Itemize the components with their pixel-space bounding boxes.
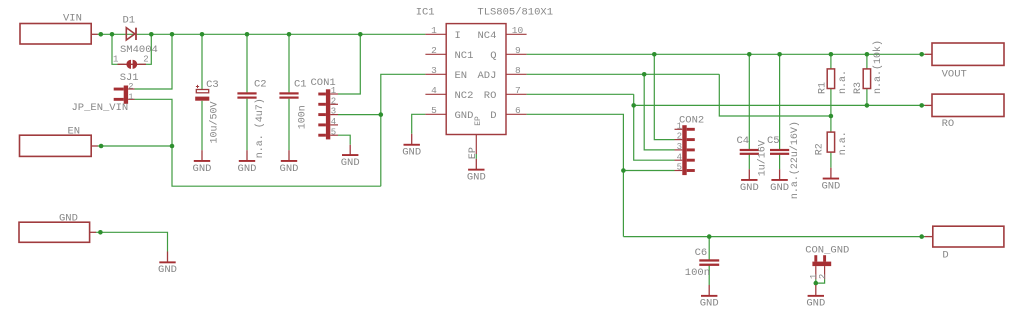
svg-text:9: 9 [515, 45, 521, 56]
wire RO branch down to CON2 pin 4 [634, 94, 675, 160]
svg-text:R1: R1 [818, 82, 829, 94]
wire ADJ over to divider node [719, 74, 831, 116]
wire R3 top lead [866, 54, 868, 69]
svg-text:IC1: IC1 [416, 7, 435, 19]
svg-text:10: 10 [512, 25, 524, 36]
svg-text:2: 2 [128, 82, 133, 92]
svg-text:EN: EN [68, 125, 81, 137]
svg-text:4: 4 [331, 117, 336, 127]
node CON2 pin2 tap on Q rail [652, 52, 657, 57]
wire CON1 pin 5 to ground [338, 135, 350, 145]
ground under CON1 [341, 145, 360, 169]
svg-text:3: 3 [677, 142, 682, 152]
ground under CON_GND [806, 285, 825, 310]
svg-text:n.a.(22u/16V): n.a.(22u/16V) [789, 121, 801, 199]
capacitor C1 [279, 92, 298, 98]
wire C3 bottom lead [201, 101, 203, 150]
svg-text:VIN: VIN [63, 12, 82, 24]
svg-text:100n: 100n [685, 267, 710, 279]
wire D rail to D port [623, 236, 925, 238]
node JP riser on VIN rail [170, 32, 175, 37]
svg-text:TLS805/810X1: TLS805/810X1 [477, 7, 553, 19]
svg-text:2: 2 [677, 132, 682, 142]
wire C1 top lead [288, 34, 290, 92]
svg-text:10u/50V: 10u/50V [208, 101, 220, 143]
node EN junction at JP pin 1 [170, 144, 175, 149]
svg-text:GND: GND [59, 213, 78, 225]
svg-text:2: 2 [431, 45, 437, 56]
resistor R2 [827, 132, 834, 152]
wire GND port to ground symbol [96, 232, 168, 251]
ground under C2 [238, 150, 257, 175]
node R3 bottom on RO line [865, 103, 870, 108]
wire JP_EN_VIN pin 1 to EN net [135, 99, 173, 146]
node C3 tap on VIN rail [200, 32, 205, 37]
node RO branch [631, 103, 636, 108]
svg-text:CON1: CON1 [311, 77, 336, 89]
pin stub of D port [925, 236, 933, 238]
port VIN [20, 24, 91, 45]
svg-text:D1: D1 [123, 14, 136, 26]
svg-text:GND: GND [158, 264, 177, 276]
wire RO from IC1 pin 7 [527, 93, 634, 95]
svg-text:GND: GND [467, 172, 486, 184]
node C6 tap on D rail [707, 234, 712, 239]
node VOUT port pin [919, 52, 924, 57]
svg-text:GND: GND [455, 110, 474, 122]
wire D branch to CON2 pin 5 [623, 170, 674, 172]
wire C2 bottom lead [246, 99, 248, 151]
svg-text:n.a. (4u7): n.a. (4u7) [254, 98, 266, 158]
svg-text:Q: Q [490, 50, 496, 62]
svg-text:C3: C3 [206, 79, 219, 91]
node R1 tap on Q rail [829, 52, 834, 57]
svg-text:EP: EP [474, 116, 483, 126]
wire EN port to junction [97, 145, 172, 147]
wire C3 top lead [201, 34, 203, 89]
svg-text:n.a.(10k): n.a.(10k) [872, 40, 884, 94]
svg-text:5: 5 [677, 163, 682, 173]
wire C4 bottom lead [748, 153, 750, 169]
svg-text:2: 2 [143, 55, 148, 65]
svg-text:CON_GND: CON_GND [805, 244, 849, 256]
node CON2 pin5 on D net [621, 168, 626, 173]
connector CON_GND [812, 255, 831, 279]
pin stub of GND port [90, 231, 96, 233]
svg-text:1: 1 [128, 92, 133, 102]
svg-text:EN: EN [455, 70, 468, 82]
node SJ1 pad 2 branch [149, 32, 154, 37]
svg-text:C5: C5 [767, 135, 780, 147]
svg-text:GND: GND [341, 157, 360, 169]
wire C6 top lead [708, 237, 710, 260]
svg-text:NC1: NC1 [455, 50, 474, 62]
capacitor C3 [195, 85, 209, 101]
node C1 tap on VIN rail [287, 32, 292, 37]
wire IC1 GND pin to ground [412, 114, 426, 134]
port GND [19, 222, 90, 242]
svg-text:CON2: CON2 [679, 114, 704, 126]
capacitor C2 [237, 92, 256, 98]
jumper JP_EN_VIN [114, 86, 135, 104]
svg-text:1: 1 [113, 55, 118, 65]
wire CON1 pin 1 up to VIN rail [338, 34, 360, 94]
connector CON2 [675, 125, 695, 175]
svg-text:C2: C2 [254, 78, 267, 90]
svg-text:3: 3 [331, 107, 336, 117]
svg-text:C4: C4 [737, 135, 750, 147]
node SJ1 pad 1 branch [110, 32, 115, 37]
svg-text:2: 2 [331, 96, 336, 106]
svg-text:GND: GND [806, 298, 825, 310]
capacitor C5 [770, 149, 789, 155]
wire SJ1 right branch drop [139, 34, 151, 64]
wire C4 top lead from Q rail [748, 54, 750, 149]
svg-text:R3: R3 [853, 82, 864, 94]
svg-text:D: D [490, 110, 496, 122]
pin stubs of IC1 [425, 34, 526, 154]
svg-text:n.a.: n.a. [838, 131, 849, 155]
wire C6 bottom lead [708, 264, 710, 285]
svg-text:I: I [455, 30, 461, 42]
node C2 tap on VIN rail [245, 32, 250, 37]
ground under C5 [770, 169, 789, 194]
diode D1 [126, 28, 136, 40]
svg-text:GND: GND [821, 180, 840, 192]
resistor R3 [863, 69, 870, 89]
node CON1 pin3 on EN riser [379, 112, 384, 117]
svg-text:JP_EN_VIN: JP_EN_VIN [72, 102, 129, 114]
port EN [20, 135, 92, 156]
svg-text:SM4004: SM4004 [120, 44, 158, 56]
wire R2 top lead [830, 116, 832, 132]
svg-text:4: 4 [431, 85, 437, 96]
svg-text:4: 4 [677, 152, 682, 162]
svg-text:5: 5 [431, 105, 437, 116]
svg-text:GND: GND [280, 163, 299, 175]
svg-text:GND: GND [238, 163, 257, 175]
svg-text:GND: GND [700, 298, 719, 310]
wire IC1 EP pad to ground [475, 154, 477, 159]
svg-text:2: 2 [818, 274, 828, 279]
ground under R2 [821, 168, 840, 193]
node D port pin [919, 234, 924, 239]
wire C5 top lead from Q rail [779, 54, 781, 149]
ground from GND port [158, 252, 177, 277]
wire R1 top lead [830, 54, 832, 69]
svg-text:C6: C6 [695, 247, 708, 259]
ground at IC1 GND pin [402, 134, 421, 159]
wire Q output rail to VOUT port [527, 53, 925, 55]
node GND port pin [98, 230, 103, 235]
wire R2 bottom lead [830, 152, 832, 168]
ground under C1 [280, 150, 299, 175]
ground under C4 [740, 169, 759, 194]
svg-text:EP: EP [468, 147, 479, 159]
resistor R1 [827, 69, 834, 89]
wire RO line to RO port [634, 104, 925, 106]
connector CON1 [318, 89, 338, 139]
svg-text:3: 3 [431, 65, 437, 76]
port VOUT [932, 43, 1004, 65]
node CON_GND tie [814, 281, 819, 286]
capacitor C6 [699, 259, 719, 266]
svg-text:GND: GND [193, 163, 212, 175]
wire C1 bottom lead [288, 99, 290, 151]
svg-text:8: 8 [515, 65, 521, 76]
node R3 tap on Q rail [865, 52, 870, 57]
wire VIN rail from VIN port to IC1 pin 1 [97, 33, 425, 35]
svg-text:6: 6 [515, 105, 521, 116]
svg-text:n.a.: n.a. [838, 70, 849, 94]
wire R3 bottom lead to RO line [866, 89, 868, 106]
wire EN riser up to IC1 EN pin [381, 74, 426, 186]
wire ADJ branch down to CON2 pin 3 [644, 74, 674, 150]
wire SJ1 left branch drop [112, 34, 125, 64]
node ADJ branch [642, 72, 647, 77]
node VIN port pin [99, 32, 104, 37]
node CON1 pin1 tap on VIN rail [358, 32, 363, 37]
wire CON1 pin 3 to EN riser [338, 114, 381, 116]
node EN port pin [99, 144, 104, 149]
svg-text:VOUT: VOUT [942, 68, 967, 80]
solder jumper SJ1 [118, 60, 147, 69]
wire D net from IC1 pin 6 down to D rail [527, 114, 624, 236]
svg-text:100n: 100n [297, 105, 308, 129]
ground under C3 [193, 150, 212, 175]
svg-text:C1: C1 [294, 78, 307, 90]
svg-text:1: 1 [431, 25, 437, 36]
svg-text:GND: GND [402, 147, 421, 159]
wire VIN riser to JP_EN_VIN pin 2 [135, 34, 173, 89]
svg-text:GND: GND [770, 182, 789, 194]
wire C5 bottom lead [779, 153, 781, 169]
node RO port pin [919, 103, 924, 108]
wire CON_GND pin 1 to ground [815, 279, 817, 285]
op-amp regulator IC1 body [446, 24, 506, 135]
wire CON_GND pin 2 tie [816, 279, 825, 283]
wire C2 top lead [246, 34, 248, 92]
pin stub of EN port [91, 145, 97, 147]
wire Q rail down to CON2 pin 2 [654, 54, 674, 139]
pin stub of RO port [925, 104, 932, 106]
svg-text:NC2: NC2 [455, 90, 474, 102]
port D [933, 226, 1004, 247]
svg-text:R2: R2 [815, 143, 826, 155]
svg-text:NC4: NC4 [478, 30, 497, 42]
ground at IC1 EP pad [467, 159, 486, 184]
svg-text:GND: GND [740, 182, 759, 194]
svg-text:RO: RO [484, 90, 497, 102]
wire ADJ line from IC1 pin 8 [527, 73, 720, 75]
pin stub of VOUT port [925, 53, 932, 55]
svg-text:ADJ: ADJ [478, 70, 497, 82]
capacitor C4 [740, 149, 759, 155]
node ADJ divider node [829, 114, 834, 119]
port RO [932, 94, 1004, 116]
node C4 tap on Q rail [747, 52, 752, 57]
wire R1 bottom lead to ADJ node [830, 89, 832, 117]
pin stub of VIN port [91, 33, 97, 35]
svg-text:D: D [942, 250, 948, 262]
ground under C6 [700, 285, 719, 310]
svg-text:RO: RO [942, 118, 955, 130]
node C5 tap on Q rail [777, 52, 782, 57]
svg-text:7: 7 [515, 85, 521, 96]
svg-text:5: 5 [331, 127, 336, 137]
wire EN net down and along bottom to riser [172, 146, 381, 186]
